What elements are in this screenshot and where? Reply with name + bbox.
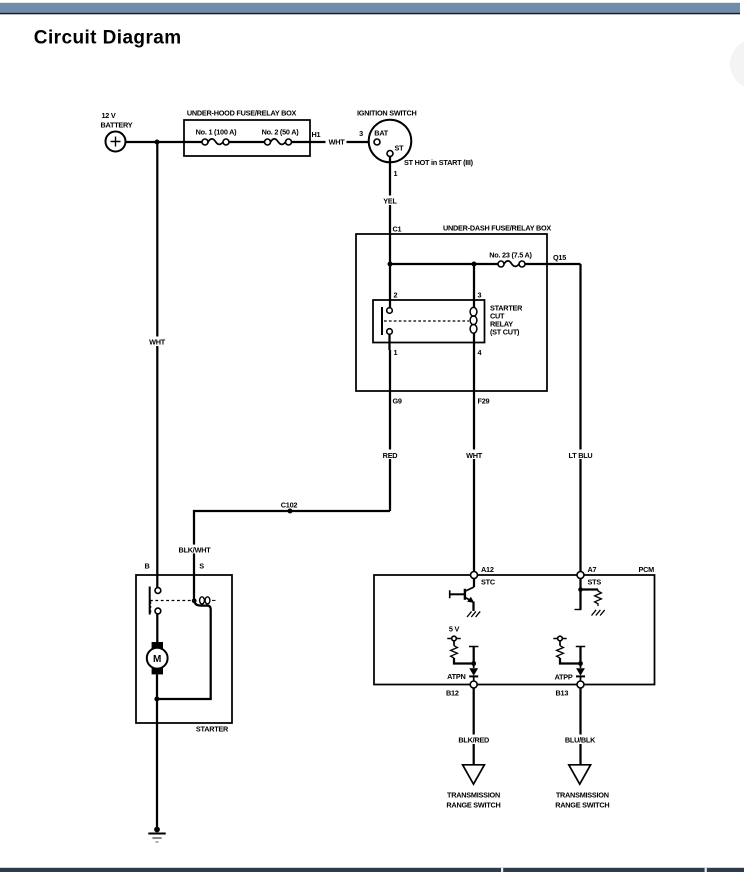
wire coil to motor bottom junction: [159, 601, 211, 699]
PCM box: [374, 575, 655, 685]
label BLU/BLK: [563, 735, 599, 745]
junction ATPN: [471, 661, 476, 666]
svg-text:C102: C102: [281, 501, 298, 510]
relay contact: [382, 307, 392, 350]
svg-text:No. 1 (100 A): No. 1 (100 A): [196, 128, 237, 137]
bottom table bar: [0, 868, 744, 872]
wire junction to fuse box: [157, 141, 202, 143]
ignition switch: [369, 120, 412, 163]
off-page connector arrow right: [569, 765, 591, 784]
svg-text:B: B: [144, 562, 149, 571]
fuse No.23 (7.5A): [498, 261, 525, 267]
wire between fuses: [229, 141, 265, 143]
junction connector C102: [288, 509, 293, 514]
wire bus C1 to fuse 23: [390, 263, 498, 265]
svg-text:No. 23 (7.5 A): No. 23 (7.5 A): [489, 251, 532, 260]
wire contact to motor: [156, 614, 158, 643]
label TRANSMISSION RANGE SWITCH left: [446, 791, 500, 810]
wire YEL ST to C1 bus: [389, 157, 391, 265]
junction relay coil bus: [472, 262, 477, 267]
label TRANSMISSION RANGE SWITCH right: [555, 791, 609, 810]
chassis ground R2: [592, 610, 605, 616]
terminal A12: [471, 572, 478, 579]
wire ATPP internal stub: [576, 647, 585, 664]
junction STS: [578, 587, 583, 592]
starter solenoid dashed line: [150, 600, 191, 602]
svg-text:PCM: PCM: [639, 565, 655, 574]
svg-text:BLK/WHT: BLK/WHT: [179, 545, 212, 554]
chassis ground Q1 emitter: [467, 611, 480, 617]
junction ATPP: [578, 661, 583, 666]
wire relay pin3 from bus: [473, 264, 475, 307]
starter solenoid contact: [150, 587, 161, 615]
svg-text:STC: STC: [481, 578, 496, 587]
resistor R2 STS pull-down: [595, 590, 602, 607]
svg-text:G9: G9: [393, 397, 402, 406]
wire battery to junction: [126, 141, 158, 143]
wire STS to resistor R2: [581, 588, 599, 590]
wire WHT battery to starter B contact: [156, 142, 158, 588]
starter solenoid coil: [200, 597, 216, 604]
terminal B13: [577, 681, 584, 688]
svg-text:Q15: Q15: [553, 253, 566, 262]
wire STS internal: [579, 579, 581, 610]
wire ATPN internal stub: [469, 647, 478, 664]
svg-text:A12: A12: [481, 565, 494, 574]
ground G1: [148, 827, 165, 842]
diode D1 ATPN: [469, 664, 478, 682]
svg-text:3: 3: [359, 129, 363, 138]
svg-text:UNDER-HOOD FUSE/RELAY BOX: UNDER-HOOD FUSE/RELAY BOX: [187, 109, 297, 118]
starter solenoid dashed linkage vertical: [150, 602, 152, 614]
svg-text:ST: ST: [395, 144, 405, 153]
wire R1 to ATPN node: [454, 658, 474, 664]
starter motor M: [147, 642, 168, 674]
starter box: [136, 575, 232, 723]
svg-text:C1: C1: [393, 225, 402, 234]
svg-text:2: 2: [394, 291, 398, 300]
svg-text:UNDER-DASH FUSE/RELAY BOX: UNDER-DASH FUSE/RELAY BOX: [443, 224, 551, 233]
svg-text:IGNITION SWITCH: IGNITION SWITCH: [357, 109, 417, 118]
svg-text:RANGE SWITCH: RANGE SWITCH: [555, 801, 609, 810]
relay coil: [470, 307, 477, 350]
wire motor to ground: [156, 674, 158, 829]
starter cut relay box: [373, 300, 485, 343]
label BLK/WHT: [178, 545, 211, 555]
svg-text:WHT: WHT: [329, 138, 346, 147]
transistor Q1 STC: [450, 579, 475, 612]
svg-text:12 V: 12 V: [102, 111, 116, 120]
svg-text:BATTERY: BATTERY: [101, 121, 133, 130]
label LT BLU: [567, 450, 595, 461]
terminal BAT: [374, 139, 380, 145]
wire BLU/BLK B13 to transmission range switch: [579, 688, 581, 764]
wire WHT relay pin4 F29 to PCM A12: [473, 350, 475, 572]
fuse No.2 (50A): [265, 139, 292, 145]
5V supply ATPP: [553, 636, 566, 646]
junction C1 bus: [388, 262, 393, 267]
label YEL: [380, 196, 400, 206]
svg-text:A7: A7: [588, 565, 597, 574]
svg-text:ST HOT in START (III): ST HOT in START (III): [404, 158, 474, 167]
label 12 V BATTERY: [101, 111, 133, 130]
label RED: [379, 450, 401, 461]
under-hood fuse/relay box: [184, 120, 310, 156]
svg-text:LT BLU: LT BLU: [569, 451, 593, 460]
wire R3 to ATPP node: [560, 658, 581, 664]
svg-text:BLK/RED: BLK/RED: [458, 736, 489, 745]
resistor R3 ATPP pull-up: [557, 646, 564, 658]
junction S coil: [192, 598, 197, 603]
svg-text:Circuit Diagram: Circuit Diagram: [34, 27, 182, 48]
label BLK/RED: [456, 735, 492, 745]
label WHT (ignition feed): [326, 138, 347, 147]
svg-text:H1: H1: [312, 130, 321, 139]
svg-text:S: S: [199, 562, 204, 571]
svg-text:YEL: YEL: [383, 196, 397, 205]
svg-text:TRANSMISSION: TRANSMISSION: [556, 791, 609, 800]
wire relay pin2 from bus: [389, 264, 391, 307]
svg-text:1: 1: [394, 169, 398, 178]
svg-text:ATPN: ATPN: [447, 672, 465, 681]
svg-text:B13: B13: [556, 689, 569, 698]
junction motor coil: [154, 697, 159, 702]
svg-text:WHT: WHT: [466, 451, 483, 460]
label WHT: [146, 337, 168, 347]
svg-text:ATPP: ATPP: [555, 673, 573, 682]
label WHT (pin4): [463, 450, 485, 461]
off-page connector arrow left: [463, 765, 485, 784]
svg-text:5 V: 5 V: [449, 625, 460, 634]
svg-text:STARTER: STARTER: [196, 725, 229, 734]
top header bar: [0, 3, 740, 15]
svg-text:BAT: BAT: [374, 129, 388, 138]
svg-text:F29: F29: [478, 397, 490, 406]
wire WHT fuse2 to ignition BAT: [292, 141, 375, 143]
5V supply: [447, 625, 460, 646]
wire end foot STS: [575, 609, 582, 611]
battery 12V: [106, 132, 126, 152]
svg-text:B12: B12: [446, 689, 459, 698]
junction battery WHT: [155, 140, 160, 145]
relay dashed actuator line: [384, 320, 469, 322]
svg-text:RED: RED: [383, 451, 398, 460]
svg-text:TRANSMISSION: TRANSMISSION: [447, 791, 500, 800]
svg-text:4: 4: [478, 348, 483, 357]
svg-text:RANGE SWITCH: RANGE SWITCH: [446, 801, 500, 810]
terminal B12: [470, 681, 477, 688]
svg-text:BLU/BLK: BLU/BLK: [565, 736, 596, 745]
under-dash fuse/relay box: [356, 234, 547, 391]
terminal A7: [577, 572, 584, 579]
svg-text:(ST CUT): (ST CUT): [490, 328, 520, 337]
svg-text:3: 3: [478, 291, 482, 300]
svg-text:WHT: WHT: [149, 337, 166, 346]
label STARTER CUT RELAY (ST CUT): [490, 304, 523, 337]
resistor R1 5V pull-up: [451, 646, 458, 658]
svg-text:STS: STS: [588, 578, 602, 587]
wire LT BLU vertical to PCM A7: [579, 264, 581, 572]
svg-text:M: M: [153, 654, 161, 665]
decorative light disc: [730, 39, 744, 89]
diode D2 ATPP: [576, 664, 585, 682]
wire RED relay pin1 G9 to C102: [389, 350, 391, 511]
svg-text:No. 2 (50 A): No. 2 (50 A): [262, 128, 300, 137]
svg-text:1: 1: [394, 348, 398, 357]
wire BLK/RED B12 to transmission range switch: [473, 688, 475, 764]
wire Q15 fuse to LT BLU drop: [525, 263, 581, 265]
fuse No.1 (100A): [202, 139, 229, 145]
terminal ST: [387, 151, 393, 157]
wire C102 horizontal: [194, 511, 390, 600]
